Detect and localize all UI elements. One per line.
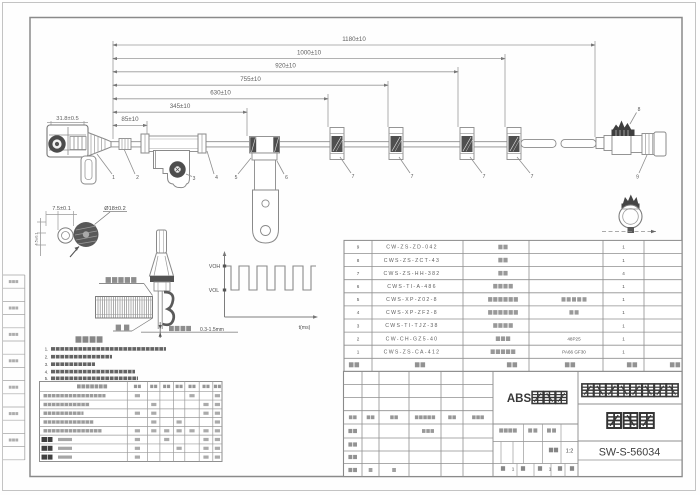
end view grommet dark circle	[74, 222, 99, 247]
svg-text:9: 9	[636, 175, 639, 181]
right connector body	[596, 132, 666, 156]
leader callout 3	[186, 174, 196, 182]
title block signature rows	[348, 429, 434, 472]
dimension 85±10	[113, 116, 147, 125]
svg-text:4.: 4.	[45, 369, 49, 374]
waveform axes	[223, 251, 318, 319]
coil winding	[96, 297, 153, 319]
center clamp block	[250, 137, 280, 154]
svg-text:3: 3	[193, 176, 196, 182]
svg-text:CWS-ZS-ZCT-43: CWS-ZS-ZCT-43	[384, 258, 440, 264]
corrugated tube	[141, 134, 206, 153]
leader callout 7	[517, 157, 534, 180]
svg-text:7: 7	[357, 271, 360, 276]
cable clip 3	[460, 128, 474, 160]
product name cell ABS sensor	[507, 392, 567, 406]
dimension 345±10	[113, 103, 247, 112]
svg-text:2: 2	[136, 175, 139, 181]
svg-text:CWS-TI-A-486: CWS-TI-A-486	[387, 284, 437, 290]
svg-text:1: 1	[549, 466, 552, 471]
svg-text:1: 1	[622, 323, 625, 328]
right connector latch	[612, 121, 635, 137]
title block grid	[344, 371, 683, 476]
svg-text:3.: 3.	[45, 362, 49, 367]
vertical sensor probe	[150, 230, 175, 329]
svg-text:3: 3	[357, 323, 360, 328]
svg-text:VOL: VOL	[209, 288, 219, 294]
svg-text:4: 4	[357, 310, 360, 315]
svg-text:345±10: 345±10	[170, 103, 191, 110]
svg-text:1: 1	[112, 175, 115, 181]
svg-text:1:2: 1:2	[566, 448, 574, 454]
title block change-record header texts	[349, 415, 484, 419]
gap dimension	[141, 322, 238, 338]
svg-text:4: 4	[215, 175, 218, 181]
svg-text:5: 5	[357, 297, 360, 302]
BOM parts list table	[344, 240, 682, 371]
svg-text:2.: 2.	[45, 355, 49, 360]
end view vertical dim 4.5	[34, 218, 47, 256]
dimension 920±10	[113, 63, 458, 72]
svg-text:CW-CH-GZ5-40: CW-CH-GZ5-40	[386, 336, 439, 342]
cable sleeve	[119, 139, 131, 150]
svg-text:1: 1	[622, 258, 625, 263]
leader callout 9	[636, 155, 647, 181]
label coil	[113, 319, 152, 332]
svg-text:1180±10: 1180±10	[342, 36, 366, 43]
hanging strap upper	[255, 160, 276, 190]
connector end view detail	[602, 195, 656, 234]
dimension extension line left reference	[112, 41, 114, 139]
svg-text:755±10: 755±10	[240, 76, 261, 83]
svg-text:31.8±0.5: 31.8±0.5	[56, 116, 79, 122]
svg-text:85±10: 85±10	[121, 116, 139, 123]
svg-text:1: 1	[622, 336, 625, 341]
cable boot cone	[88, 133, 111, 157]
svg-text:5: 5	[235, 175, 238, 181]
end view ring	[58, 228, 73, 243]
dimension extension verticals	[147, 41, 595, 137]
tech note line 5	[45, 376, 138, 381]
stage mark weight scale row	[499, 428, 573, 454]
svg-text:7.5±0.1: 7.5±0.1	[52, 206, 71, 212]
svg-text:630±10: 630±10	[210, 90, 231, 97]
section pointer arrow	[70, 247, 79, 258]
svg-text:7: 7	[411, 174, 414, 180]
tech note line 1	[45, 347, 166, 352]
svg-text:SW-S-56034: SW-S-56034	[599, 447, 661, 459]
svg-text:1: 1	[357, 349, 360, 354]
sensor head dimension 31.8	[47, 116, 88, 128]
svg-text:1: 1	[622, 310, 625, 315]
sheet count row	[501, 466, 574, 471]
leader callout 2	[124, 149, 139, 181]
center clamp collar	[252, 153, 277, 160]
svg-text:1: 1	[622, 297, 625, 302]
end view detail labels	[52, 206, 127, 212]
svg-text:0.3-1.5mm: 0.3-1.5mm	[200, 327, 224, 333]
svg-text:CWS-XP-Z02-8: CWS-XP-Z02-8	[386, 297, 438, 303]
cable clip 1	[330, 128, 344, 160]
svg-text:1: 1	[622, 349, 625, 354]
cable capsule segment 1	[521, 140, 556, 148]
svg-text:4: 4	[622, 271, 625, 276]
parameter table	[40, 382, 223, 462]
svg-text:Ø18±0.2: Ø18±0.2	[104, 206, 125, 212]
leader callout 7	[470, 157, 486, 180]
svg-text:1000±10: 1000±10	[297, 49, 322, 56]
end view dim line	[46, 211, 77, 230]
waveform labels	[209, 264, 311, 331]
dimension 755±10	[113, 76, 388, 85]
svg-text:VOH: VOH	[209, 264, 220, 270]
svg-text:4.5±0.1: 4.5±0.1	[34, 232, 39, 246]
svg-text:6: 6	[357, 284, 360, 289]
dimension 1180±10	[113, 36, 595, 45]
svg-text:7: 7	[352, 174, 355, 180]
svg-text:8: 8	[357, 258, 360, 263]
svg-text:1: 1	[622, 245, 625, 250]
svg-text:2: 2	[357, 336, 360, 341]
svg-text:920±10: 920±10	[275, 63, 296, 70]
svg-text:1: 1	[622, 284, 625, 289]
leader callout 8	[630, 107, 641, 124]
tech note line 3	[45, 362, 95, 367]
svg-text:6: 6	[285, 175, 288, 181]
cable clip 2	[389, 128, 403, 160]
svg-text:CW-ZS-ZD-042: CW-ZS-ZD-042	[386, 245, 438, 251]
dimension 1000±10	[113, 49, 505, 58]
svg-text:CWS-TI-TJZ-38: CWS-TI-TJZ-38	[385, 323, 439, 329]
grommet bracket under tube	[154, 151, 190, 188]
tech note line 2	[45, 355, 112, 360]
tech note line 4	[45, 369, 135, 374]
svg-text:1: 1	[512, 466, 515, 471]
svg-text:PA66 GF30: PA66 GF30	[562, 349, 586, 354]
label sensing zone	[99, 277, 153, 295]
leader callout 6	[277, 161, 288, 181]
dimension 630±10	[113, 90, 328, 99]
cable clip 4	[507, 128, 521, 160]
svg-text:ABS: ABS	[507, 393, 532, 405]
sensor head body	[47, 125, 88, 157]
svg-text:7: 7	[483, 174, 486, 180]
company name cell	[582, 384, 594, 397]
leader callout 7	[399, 157, 414, 180]
svg-text:5.: 5.	[45, 376, 49, 381]
svg-text:t(ms): t(ms)	[299, 325, 311, 331]
leader callout 1	[97, 154, 115, 181]
leader from dia18 label	[95, 212, 111, 225]
left margin zone ladder	[3, 275, 25, 460]
svg-text:CWS-ZS-CA-412: CWS-ZS-CA-412	[384, 349, 441, 355]
svg-text:7: 7	[531, 174, 534, 180]
sensor mounting tab	[81, 156, 96, 184]
leader callout 5	[235, 158, 251, 181]
svg-text:9: 9	[357, 245, 360, 250]
leader callout 7	[340, 157, 355, 180]
cable main run	[111, 142, 521, 147]
cable capsule segment 2	[561, 140, 596, 148]
svg-text:CWS-XP-ZF2-8: CWS-XP-ZF2-8	[386, 310, 438, 316]
svg-text:CWS-ZS-HH-382: CWS-ZS-HH-382	[384, 271, 441, 277]
svg-text:48P25: 48P25	[567, 336, 581, 341]
waveform square wave	[223, 265, 316, 292]
tech requirements heading	[76, 336, 82, 342]
svg-text:8: 8	[638, 107, 641, 113]
drawing type cell	[607, 413, 621, 428]
leader callout 4	[207, 151, 218, 181]
svg-text:1.: 1.	[45, 347, 49, 352]
hanging strap lower with holes	[253, 190, 279, 243]
